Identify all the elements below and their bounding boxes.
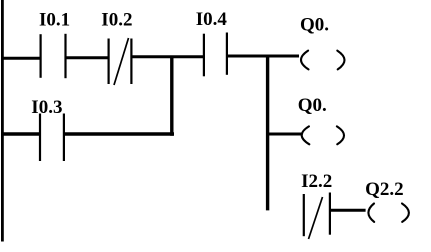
contact I0.2 (NC) <box>109 38 132 85</box>
contact I0.4 (NO) <box>204 33 227 77</box>
wire: rail to contact I0.1 <box>1 57 41 60</box>
svg-text:I0.1: I0.1 <box>39 9 70 30</box>
wire: I0.3 to junction <box>64 132 174 135</box>
svg-text:Q0.: Q0. <box>298 95 327 116</box>
wire: I0.1 to I0.2 <box>66 56 109 59</box>
svg-text:I2.2: I2.2 <box>301 171 332 192</box>
left power rail <box>1 0 4 242</box>
junction wire: down to parallel branch <box>170 56 173 136</box>
junction wire: vertical down from output node <box>266 56 269 211</box>
wire: I2.2 to coil Q2.2 <box>330 209 366 212</box>
coil Q0. (second) <box>302 126 344 144</box>
coil Q2.2 <box>368 204 409 222</box>
contact I0.1 (NO) <box>41 34 66 78</box>
wire: I0.4 to coil Q0. (first) <box>227 55 299 58</box>
svg-text:I0.2: I0.2 <box>101 9 132 30</box>
svg-text:I0.4: I0.4 <box>196 9 228 30</box>
contact I2.2 (NC) <box>304 193 330 240</box>
wire: junction to coil Q0. (second) <box>267 133 302 136</box>
svg-text:Q0.: Q0. <box>300 14 329 35</box>
coil Q0. (first) <box>301 51 345 70</box>
wire: rail to contact I0.3 (parallel branch) <box>1 132 40 135</box>
contact I0.3 (NO) <box>40 114 64 162</box>
wire: I0.2 to I0.4 <box>131 55 204 58</box>
svg-text:I0.3: I0.3 <box>31 97 62 118</box>
svg-text:Q2.2: Q2.2 <box>365 179 404 200</box>
